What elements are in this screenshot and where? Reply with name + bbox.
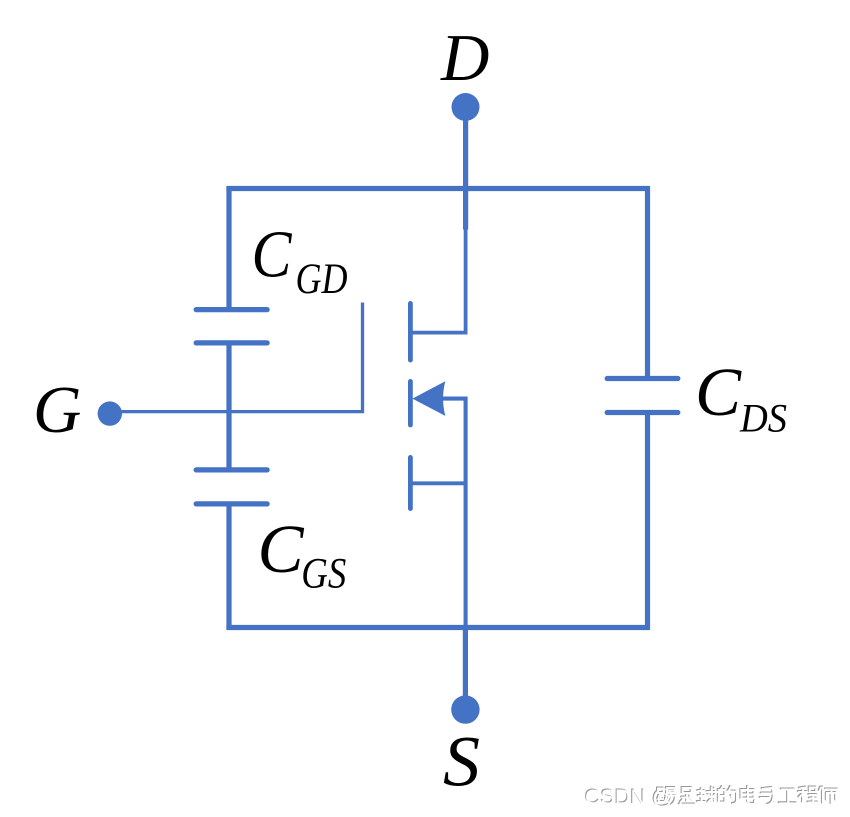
svg-text:DS: DS bbox=[739, 395, 787, 440]
svg-text:C: C bbox=[252, 218, 293, 292]
svg-text:GS: GS bbox=[301, 551, 346, 598]
svg-text:D: D bbox=[440, 21, 489, 95]
svg-text:S: S bbox=[443, 722, 480, 802]
svg-text:C: C bbox=[695, 354, 742, 430]
svg-text:G: G bbox=[33, 373, 81, 447]
svg-text:GD: GD bbox=[296, 256, 348, 303]
svg-text:C: C bbox=[258, 511, 305, 587]
